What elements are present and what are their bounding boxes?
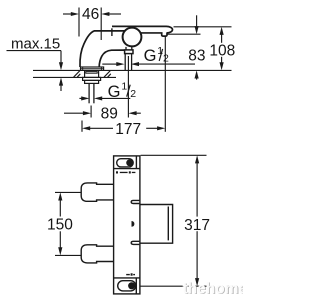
svg-text:G: G — [108, 83, 121, 101]
svg-text:150: 150 — [47, 217, 73, 234]
svg-text:G: G — [144, 47, 157, 65]
svg-text:thehome: thehome — [183, 280, 244, 297]
svg-text:89: 89 — [101, 105, 118, 122]
svg-text:max.15: max.15 — [11, 35, 60, 52]
svg-text:108: 108 — [209, 43, 235, 60]
svg-text:46: 46 — [82, 6, 99, 23]
svg-text:83: 83 — [188, 47, 205, 64]
svg-text:2: 2 — [163, 52, 169, 64]
svg-text:2: 2 — [130, 88, 136, 100]
svg-text:1: 1 — [121, 80, 127, 92]
svg-text:317: 317 — [184, 217, 210, 234]
svg-text:177: 177 — [115, 121, 141, 138]
